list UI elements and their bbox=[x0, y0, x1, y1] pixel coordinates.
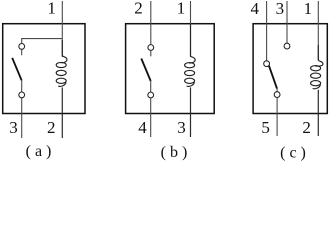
wire blade to moving contact bbox=[276, 88, 278, 91]
svg-text:( b ): ( b ) bbox=[161, 144, 188, 161]
fixed contact stem bbox=[21, 49, 23, 55]
wire pin 2 lead bbox=[317, 90, 319, 136]
coil L (b) bbox=[185, 24, 196, 86]
svg-text:4: 4 bbox=[138, 118, 147, 137]
wire pin 2 lead to fixed contact bbox=[150, 1, 152, 45]
moving contact circle (c) bbox=[274, 92, 280, 98]
fixed contact circle (a) bbox=[19, 44, 25, 50]
wire pin 3 lead bbox=[21, 98, 23, 138]
svg-text:2: 2 bbox=[302, 118, 311, 137]
relay (a) enclosure box bbox=[3, 24, 85, 114]
svg-text:( c ): ( c ) bbox=[280, 145, 306, 162]
wire pin 2 lead bbox=[61, 87, 63, 138]
wire pin 4 lead bbox=[150, 98, 152, 137]
svg-text:2: 2 bbox=[134, 0, 143, 18]
switch blade (b) bbox=[141, 59, 150, 82]
svg-text:( a ): ( a ) bbox=[26, 143, 52, 160]
wire pin 4 lead to blade pivot bbox=[266, 1, 268, 61]
switch blade (a) bbox=[12, 58, 21, 81]
wire pin 5 lead bbox=[276, 98, 278, 136]
svg-text:2: 2 bbox=[47, 118, 56, 137]
svg-text:3: 3 bbox=[9, 118, 18, 137]
svg-text:4: 4 bbox=[251, 0, 260, 18]
wire pin 1 lead to coil top bbox=[190, 1, 192, 57]
wire contact to coil line junction bbox=[22, 39, 63, 44]
coil L (a) bbox=[56, 40, 67, 86]
svg-text:1: 1 bbox=[47, 0, 56, 18]
wire blade to moving contact bbox=[21, 80, 23, 92]
svg-text:1: 1 bbox=[177, 0, 186, 18]
wire pin 1 lead to coil top bbox=[317, 1, 319, 61]
fixed contact circle (c) bbox=[284, 43, 290, 49]
relay (b) enclosure box bbox=[126, 24, 215, 114]
moving contact circle (b) bbox=[148, 92, 154, 98]
svg-text:5: 5 bbox=[261, 118, 270, 137]
wire pin 1 lead to coil top bbox=[61, 1, 63, 57]
switch blade (c) bbox=[269, 66, 277, 89]
coil L (c) bbox=[311, 45, 323, 89]
svg-text:3: 3 bbox=[276, 0, 285, 18]
blade pivot circle (c) bbox=[264, 61, 270, 67]
moving contact circle (a) bbox=[19, 92, 25, 98]
relay (c) enclosure box bbox=[253, 24, 327, 114]
wire pin 3 lead bbox=[190, 87, 192, 137]
fixed contact circle (b) bbox=[148, 45, 154, 51]
svg-text:3: 3 bbox=[177, 118, 186, 137]
wire pin 3 lead to fixed contact bbox=[286, 1, 288, 43]
fixed contact stem bbox=[150, 51, 152, 57]
svg-text:1: 1 bbox=[304, 0, 313, 18]
wire blade to moving contact bbox=[150, 81, 152, 92]
